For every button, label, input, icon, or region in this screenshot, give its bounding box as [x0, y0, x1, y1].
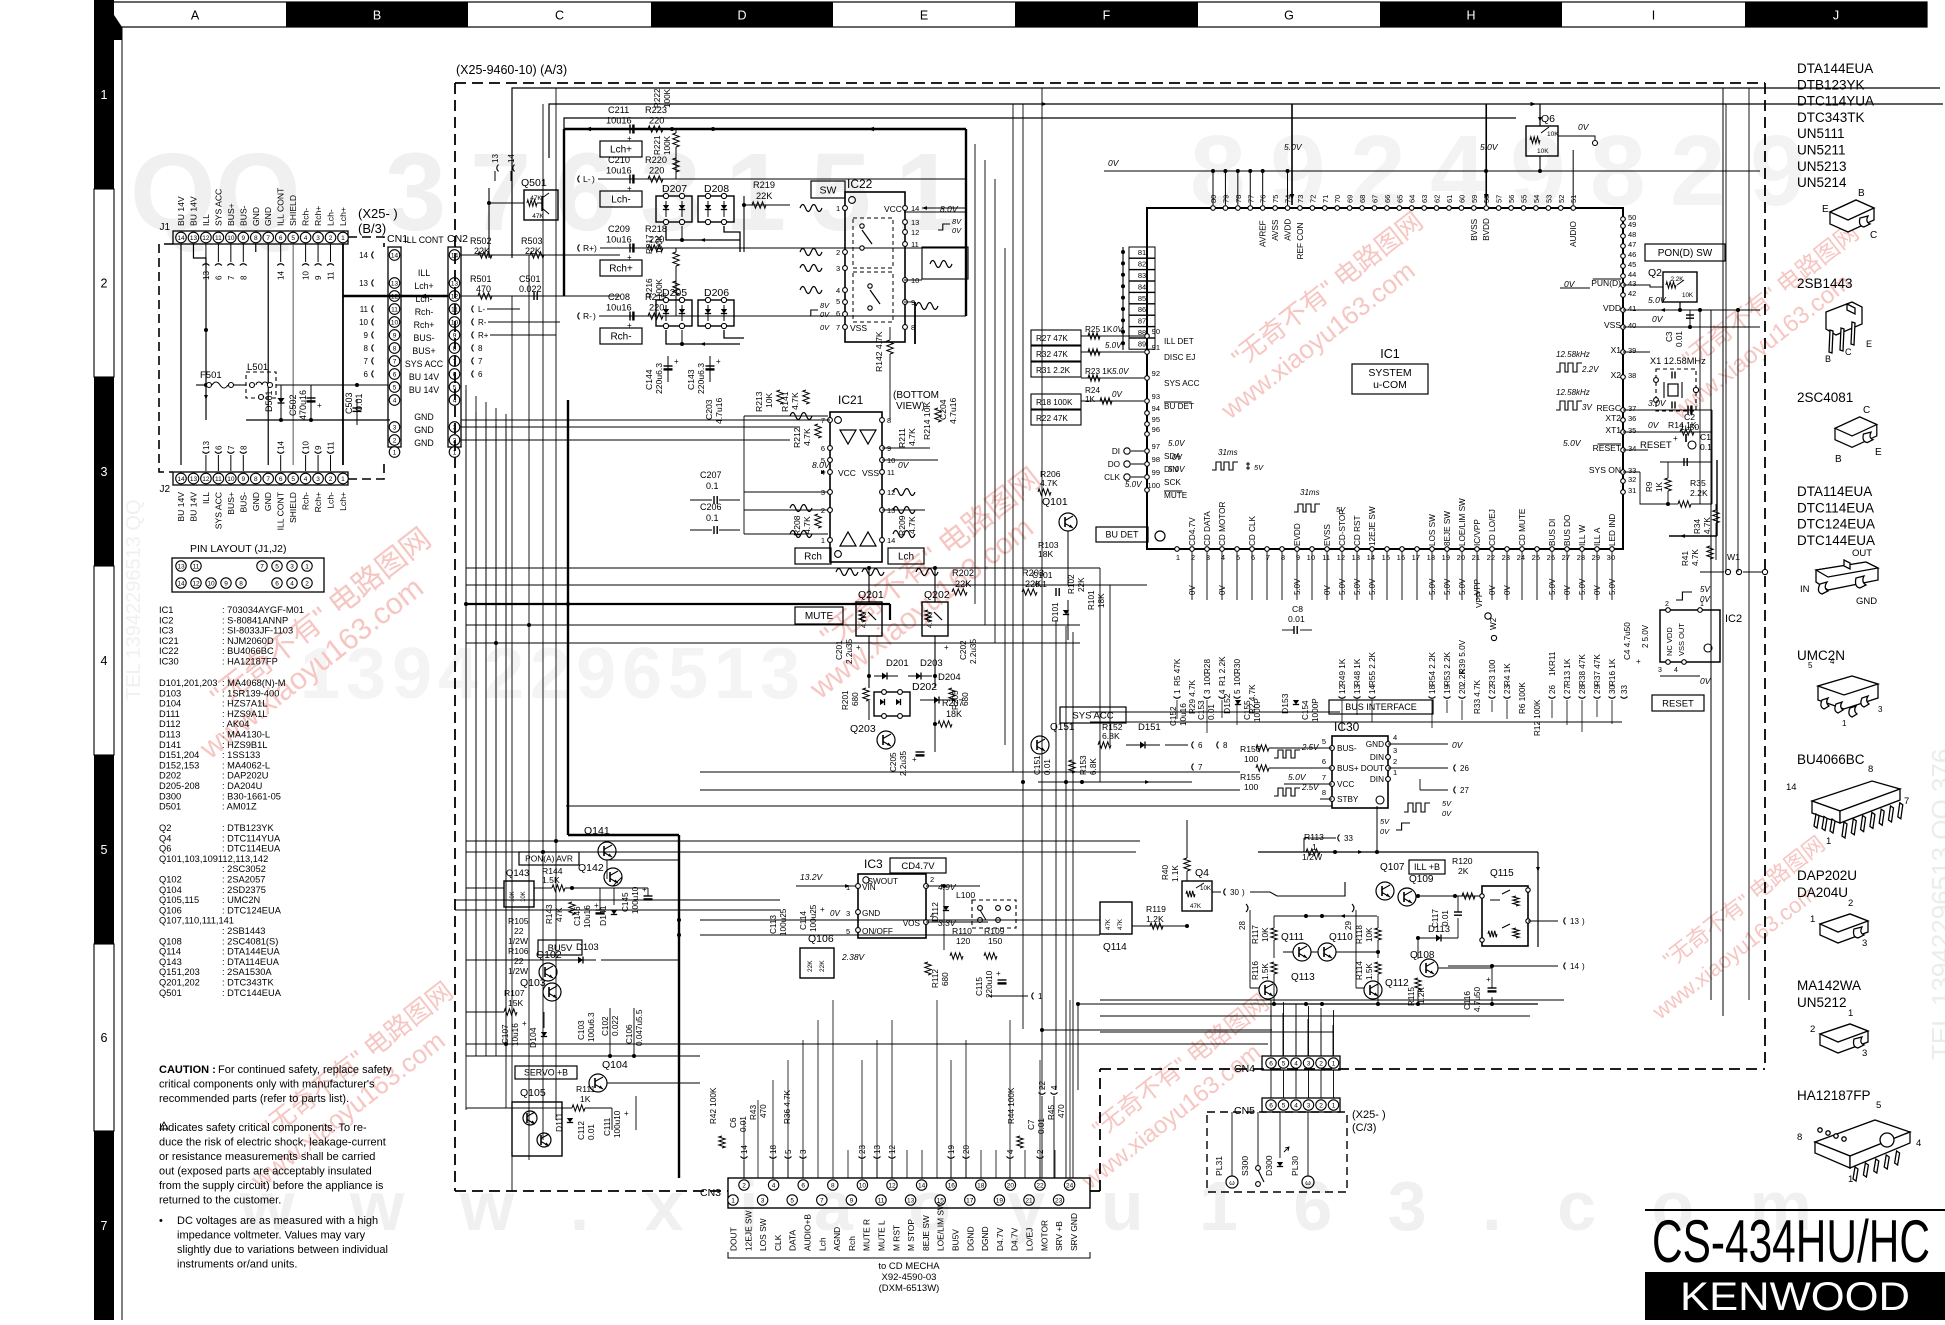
wire Q109 to Q115: [1416, 895, 1482, 897]
svg-text:4: 4: [772, 1182, 776, 1189]
bracket 30: [1224, 889, 1226, 896]
capacitor C208: [629, 312, 631, 321]
svg-text:R105: R105: [508, 916, 529, 926]
svg-text:R48 1K: R48 1K: [1353, 658, 1362, 686]
svg-text:0V: 0V: [1652, 314, 1664, 324]
svg-text:3: 3: [1307, 1060, 1311, 1067]
svg-text:Q107,110,111,141: Q107,110,111,141: [159, 916, 234, 926]
svg-text:47K: 47K: [530, 195, 542, 202]
svg-text:19: 19: [947, 1145, 956, 1154]
IC1 left pins 90-100: [1145, 334, 1150, 339]
svg-text:8.0V: 8.0V: [940, 204, 959, 214]
svg-text:8V: 8V: [952, 217, 962, 226]
bracket 1 right of ic3: [1032, 993, 1034, 1000]
svg-text:: 2SB1443: : 2SB1443: [222, 926, 265, 936]
svg-text:R217: R217: [645, 234, 654, 254]
svg-text:4: 4: [438, 634, 478, 714]
svg-text:12.58kHz: 12.58kHz: [1556, 388, 1590, 397]
svg-text:2: 2: [1393, 757, 1397, 766]
dashed boundary A/3 left: [454, 83, 456, 1191]
svg-text:D111: D111: [159, 709, 180, 719]
svg-text:5V: 5V: [1700, 585, 1710, 594]
IC1 bottom wires down: [1191, 551, 1193, 600]
svg-text:: 2SD2375: : 2SD2375: [222, 885, 266, 895]
svg-text:BU 14V: BU 14V: [409, 385, 439, 395]
svg-text:C4 4.7u50: C4 4.7u50: [1623, 622, 1632, 660]
label 5V 0V stby: [1396, 823, 1410, 830]
svg-text:1: 1: [1700, 601, 1704, 608]
net label box BUS INTERFACE: [1329, 700, 1433, 714]
svg-text:5.0V: 5.0V: [1548, 578, 1557, 595]
svg-text:GND: GND: [1366, 740, 1384, 749]
svg-text:3: 3: [836, 264, 840, 273]
svg-text:duce the risk of electric shoc: duce the risk of electric shock, leakage…: [159, 1137, 386, 1149]
svg-text:14: 14: [1368, 685, 1377, 694]
svg-text:22: 22: [1487, 553, 1495, 562]
svg-text:D152: D152: [1222, 693, 1232, 714]
svg-text:62: 62: [1433, 195, 1442, 203]
svg-text:31ms: 31ms: [1218, 448, 1238, 457]
svg-text:D4.7V: D4.7V: [1010, 1227, 1020, 1251]
svg-text:GND: GND: [414, 425, 434, 435]
svg-text:D: D: [737, 9, 746, 23]
svg-text:5: 5: [1233, 689, 1242, 694]
svg-text:5.0V: 5.0V: [1168, 439, 1185, 448]
svg-text:: MA4062-L: : MA4062-L: [222, 760, 270, 770]
wire D205 D206 bottom bus: [666, 330, 740, 344]
svg-text:11: 11: [911, 240, 919, 249]
svg-text:69: 69: [1346, 195, 1355, 203]
svg-text:5.0V: 5.0V: [1443, 578, 1452, 595]
svg-text:14: 14: [1367, 553, 1375, 562]
svg-text:DIN: DIN: [1370, 753, 1384, 762]
svg-text:4.9V: 4.9V: [938, 882, 957, 892]
svg-text:2: 2: [1665, 601, 1669, 608]
svg-text:Rch-: Rch-: [610, 332, 631, 343]
svg-text:5.0V: 5.0V: [1112, 367, 1129, 376]
svg-text:36: 36: [1628, 414, 1636, 423]
svg-text:IC21: IC21: [838, 393, 864, 407]
svg-text:8: 8: [1281, 553, 1285, 562]
svg-text:CD DATA: CD DATA: [1203, 511, 1212, 546]
wire ILL CONT vertical: [511, 255, 513, 296]
svg-text:IN: IN: [1800, 584, 1810, 595]
svg-text:Q101: Q101: [1042, 496, 1068, 508]
svg-text:8: 8: [887, 416, 891, 425]
svg-text:3: 3: [761, 1197, 765, 1204]
svg-text:BVSS: BVSS: [1470, 218, 1479, 240]
svg-text:R9: R9: [1645, 481, 1654, 492]
IC1 bottom bracket pins: [1174, 697, 1181, 699]
svg-text:: 2SA1530A: : 2SA1530A: [222, 967, 272, 977]
svg-text:6: 6: [622, 634, 662, 714]
net label box RESET bottom: [1652, 695, 1704, 711]
svg-text:220: 220: [649, 166, 664, 176]
svg-text:D113: D113: [159, 730, 181, 740]
svg-text:SYS ACC: SYS ACC: [1164, 379, 1200, 388]
svg-text:5: 5: [1236, 553, 1240, 562]
svg-text:BUS INTERFACE: BUS INTERFACE: [1345, 702, 1417, 712]
svg-text:LOE/LIM SW: LOE/LIM SW: [1458, 498, 1467, 546]
svg-text:R211: R211: [897, 428, 907, 448]
net label box Lch bottom: [888, 548, 924, 564]
svg-text:15: 15: [1382, 553, 1390, 562]
svg-text:2: 2: [305, 580, 309, 587]
svg-text:C210: C210: [608, 155, 630, 165]
svg-text:5.0V: 5.0V: [1428, 578, 1437, 595]
net label box SERVO +B: [515, 1066, 577, 1079]
svg-text:: DA204U: : DA204U: [222, 781, 262, 791]
svg-text:: DTA114EUA: : DTA114EUA: [222, 957, 280, 967]
svg-text:critical components only with: critical components only with manufactur…: [159, 1079, 375, 1091]
svg-text:2.5V: 2.5V: [1301, 743, 1319, 752]
wire J1 pin8 GND corner: [255, 244, 257, 252]
svg-text:13: 13: [190, 476, 198, 483]
svg-text:0.1: 0.1: [706, 481, 719, 491]
svg-text:16: 16: [948, 1182, 956, 1189]
svg-text:10K: 10K: [1547, 131, 1559, 138]
svg-text:Q4: Q4: [1195, 867, 1209, 879]
svg-text:R106: R106: [508, 946, 529, 956]
svg-text:3: 3: [290, 563, 294, 570]
svg-text:21: 21: [1472, 553, 1480, 562]
svg-text:8: 8: [254, 476, 258, 483]
svg-text:BU 14V: BU 14V: [409, 372, 439, 382]
svg-text:11: 11: [887, 468, 895, 477]
svg-text:2.2K: 2.2K: [1690, 488, 1708, 498]
svg-text:4: 4: [1830, 657, 1835, 666]
svg-text:2.2u35: 2.2u35: [845, 639, 854, 664]
wire top rail 3: [564, 118, 1516, 129]
svg-text:4: 4: [1006, 1149, 1015, 1154]
IC1 left numbered boxes 81-89: [1129, 247, 1155, 258]
svg-text:BU 14V: BU 14V: [188, 492, 198, 522]
svg-text:VPP: VPP: [1475, 591, 1484, 608]
svg-text:7: 7: [364, 357, 369, 366]
svg-text:+: +: [317, 401, 322, 410]
svg-text:GND: GND: [414, 412, 434, 422]
wire thick Lch+ feed: [564, 128, 966, 131]
svg-text:R+: R+: [583, 243, 594, 253]
svg-text:9: 9: [887, 444, 891, 453]
crystal X1 dashed box: [1656, 369, 1696, 411]
svg-text:22: 22: [1038, 1081, 1047, 1090]
svg-text:5: 5: [1282, 1060, 1286, 1067]
svg-text:R111: R111: [576, 1084, 595, 1094]
svg-text:CN4: CN4: [1234, 1063, 1255, 1075]
svg-text:0V: 0V: [1218, 585, 1227, 595]
svg-text:1.5K: 1.5K: [542, 875, 560, 885]
svg-text:24: 24: [1066, 1182, 1074, 1189]
svg-text:0.01: 0.01: [1043, 759, 1052, 775]
svg-text:DAP202U: DAP202U: [1797, 868, 1857, 883]
svg-text:9: 9: [364, 331, 369, 340]
svg-text:61: 61: [1445, 195, 1454, 203]
svg-text:0.01: 0.01: [1207, 704, 1216, 720]
svg-text:7: 7: [1198, 763, 1203, 772]
svg-text:D300: D300: [1264, 1155, 1274, 1176]
svg-text:R45: R45: [1047, 1105, 1056, 1120]
svg-text:1000P: 1000P: [1311, 698, 1320, 722]
svg-text:ILL W: ILL W: [1578, 525, 1587, 546]
svg-text:99: 99: [1152, 468, 1160, 477]
svg-text:4: 4: [1916, 1138, 1921, 1149]
svg-text:Lch-: Lch-: [326, 492, 336, 509]
svg-text:PON(A) AVR: PON(A) AVR: [525, 854, 573, 864]
svg-text:+: +: [996, 969, 1001, 978]
svg-text:CLK: CLK: [1104, 473, 1120, 482]
svg-text:14: 14: [887, 536, 895, 545]
net label box Lch-: [600, 191, 642, 207]
svg-text:8: 8: [239, 275, 248, 280]
svg-text:0V: 0V: [1112, 390, 1122, 399]
svg-text:100K: 100K: [655, 234, 664, 254]
svg-text:D141: D141: [159, 740, 181, 750]
svg-text:(BOTTOM: (BOTTOM: [893, 390, 939, 401]
svg-text:8: 8: [364, 344, 369, 353]
pulse 5V 0V annotation ic30: [1404, 803, 1430, 812]
net label box Rch-: [600, 328, 642, 344]
svg-text:12: 12: [1337, 553, 1345, 562]
svg-text:0.047u5.5: 0.047u5.5: [635, 1009, 644, 1046]
svg-text:D153: D153: [1280, 693, 1290, 714]
svg-text:MUTE: MUTE: [1164, 491, 1188, 500]
svg-text:13: 13: [359, 279, 368, 288]
svg-text:DGND: DGND: [965, 1226, 975, 1251]
svg-text:470: 470: [759, 1104, 768, 1118]
svg-text:220u6.3: 220u6.3: [654, 363, 664, 394]
svg-text:D104: D104: [528, 1027, 538, 1048]
net label box ILL +B: [1409, 860, 1445, 874]
svg-text:R40: R40: [1161, 865, 1170, 880]
svg-text:R35: R35: [1690, 478, 1706, 488]
svg-text:12: 12: [1338, 685, 1347, 694]
svg-text:5.0V: 5.0V: [1353, 578, 1362, 595]
svg-text:9: 9: [576, 634, 616, 714]
svg-text:MUTE L: MUTE L: [877, 1220, 887, 1251]
svg-text:LOE/LIM SW: LOE/LIM SW: [936, 1202, 946, 1251]
dashed boundary A/3 bottom-left: [455, 1190, 728, 1192]
svg-text:12EJE SW: 12EJE SW: [743, 1210, 753, 1251]
svg-text:60: 60: [1457, 195, 1466, 203]
svg-text:DATA: DATA: [788, 1229, 798, 1251]
svg-text:H: H: [1466, 9, 1475, 23]
svg-text:SRV GND: SRV GND: [1069, 1213, 1079, 1251]
svg-text:Q201: Q201: [858, 589, 884, 601]
svg-text:100u25: 100u25: [779, 908, 788, 936]
package icon SOT-23 DAP202U: [1820, 914, 1868, 943]
svg-text:R11: R11: [1548, 651, 1557, 666]
J1 underside bracket pins: [205, 244, 207, 262]
svg-text:Q114: Q114: [1103, 942, 1127, 953]
svg-text:C8: C8: [1292, 604, 1303, 614]
svg-text:IC3: IC3: [159, 626, 173, 636]
svg-text:Q107: Q107: [1380, 862, 1405, 873]
svg-text:10u16: 10u16: [606, 116, 632, 126]
CN3 underline bracket: [728, 1252, 1090, 1258]
svg-text:1: 1: [1332, 1102, 1336, 1109]
svg-text:2: 2: [1319, 1102, 1323, 1109]
svg-text:C501: C501: [519, 274, 541, 284]
svg-text:3.0V: 3.0V: [1648, 398, 1667, 408]
J2 topside bracket pins: [205, 455, 207, 471]
svg-text:D501: D501: [264, 390, 274, 412]
svg-text:29: 29: [1592, 553, 1600, 562]
svg-text:13: 13: [177, 563, 185, 570]
net label box MUTE: [795, 607, 843, 624]
svg-text:D202: D202: [912, 681, 937, 693]
svg-text:Q6: Q6: [159, 844, 171, 854]
svg-text:SRV +B: SRV +B: [1054, 1221, 1064, 1251]
svg-text:CAUTION :: CAUTION :: [159, 1064, 216, 1076]
wire ic22 links right: [904, 279, 922, 281]
wire long vertical shield: [292, 244, 294, 465]
svg-text:23: 23: [1502, 553, 1510, 562]
wire X1 X2 pins: [1623, 352, 1656, 380]
svg-text:R+: R+: [478, 331, 489, 340]
wire R113 rail: [1258, 851, 1538, 853]
svg-text:C155: C155: [1243, 700, 1252, 720]
svg-text:5V: 5V: [1442, 799, 1452, 808]
svg-text:CN3: CN3: [700, 1187, 721, 1199]
svg-text:SYS ACC: SYS ACC: [213, 189, 223, 226]
svg-text:10K: 10K: [764, 392, 774, 408]
svg-text:28: 28: [1577, 553, 1585, 562]
svg-text:R32 47K: R32 47K: [1036, 350, 1068, 359]
svg-text:REF CON: REF CON: [1296, 222, 1305, 259]
svg-text:97: 97: [1152, 442, 1160, 451]
resistor R220: [648, 176, 663, 182]
svg-text:C204: C204: [938, 399, 948, 420]
svg-text:ILL +B: ILL +B: [1414, 862, 1440, 872]
svg-text:10u16: 10u16: [606, 166, 632, 176]
svg-text:R55 2.2K: R55 2.2K: [1368, 651, 1377, 686]
svg-text:13: 13: [1352, 553, 1360, 562]
wire gnd bus under fuse area: [246, 419, 390, 421]
svg-text:13: 13: [907, 1197, 915, 1204]
svg-text:52: 52: [1557, 195, 1566, 203]
Q501 pin bracket 13 14: [497, 165, 499, 172]
svg-text:: DTC124EUA: : DTC124EUA: [222, 905, 282, 915]
svg-text:C502: C502: [288, 394, 298, 416]
svg-text:18K: 18K: [1097, 593, 1106, 608]
svg-text:R5 47K: R5 47K: [1173, 658, 1182, 686]
net label box PON(A) AVR: [519, 852, 579, 865]
svg-text:: SI-8033JF-1103: : SI-8033JF-1103: [222, 626, 293, 636]
svg-text:85: 85: [1138, 294, 1146, 303]
svg-text:3: 3: [1658, 667, 1662, 674]
svg-text:(C/3): (C/3): [1352, 1122, 1376, 1134]
svg-text:0V: 0V: [830, 909, 840, 918]
svg-text:2: 2: [393, 437, 397, 444]
svg-text:R49 1K: R49 1K: [1338, 658, 1347, 686]
svg-text:2 5.0V: 2 5.0V: [1641, 624, 1650, 648]
svg-text:R-: R-: [478, 318, 487, 327]
svg-text:or resistance measurements sha: or resistance measurements shall be carr…: [159, 1151, 375, 1163]
svg-text:0V: 0V: [1172, 453, 1182, 462]
svg-text:Lch+: Lch+: [414, 281, 433, 291]
svg-text:Q105,115: Q105,115: [159, 895, 199, 905]
svg-text:IC22: IC22: [159, 646, 179, 656]
svg-text:17: 17: [966, 1197, 974, 1204]
svg-text:8: 8: [1868, 764, 1873, 775]
svg-text:20: 20: [1458, 685, 1467, 694]
svg-text:DTA144EUA: DTA144EUA: [1797, 61, 1873, 76]
bracket 14: [1448, 965, 1558, 967]
svg-text:VSS: VSS: [1604, 320, 1621, 330]
svg-text:Q102: Q102: [159, 875, 182, 885]
svg-text:Q106: Q106: [159, 905, 182, 915]
svg-text:11: 11: [360, 305, 369, 314]
svg-text:Q110: Q110: [1329, 932, 1353, 943]
svg-text:14: 14: [177, 580, 185, 587]
svg-text:SHIELD: SHIELD: [288, 195, 298, 226]
svg-text:C209: C209: [608, 224, 630, 234]
svg-text:+: +: [627, 134, 632, 143]
svg-text:17: 17: [1412, 553, 1420, 562]
svg-text:2.2K: 2.2K: [1671, 276, 1685, 283]
svg-text:M STOP: M STOP: [906, 1219, 916, 1251]
svg-text:4.7K: 4.7K: [790, 392, 800, 410]
svg-text:12: 12: [888, 1182, 896, 1189]
svg-text:100: 100: [1244, 782, 1259, 792]
svg-text:EVSS: EVSS: [1323, 524, 1332, 546]
svg-text:8: 8: [254, 235, 258, 242]
svg-text:6: 6: [214, 445, 223, 450]
svg-text:10K: 10K: [1261, 927, 1270, 942]
svg-text:Q501: Q501: [159, 988, 182, 998]
svg-text:2SC4081: 2SC4081: [1797, 390, 1853, 405]
svg-text:18: 18: [769, 1145, 778, 1154]
svg-text:0V: 0V: [1648, 420, 1660, 430]
svg-text:2: 2: [742, 1182, 746, 1189]
wire mid horizontals: [461, 419, 830, 421]
pon avr wires: [466, 887, 504, 889]
svg-text:R101: R101: [1087, 590, 1096, 610]
svg-text:13: 13: [1353, 685, 1362, 694]
svg-text:0.01: 0.01: [587, 1124, 596, 1140]
svg-text:BUS DO: BUS DO: [1563, 515, 1572, 546]
svg-text:31ms: 31ms: [1300, 488, 1320, 497]
svg-text:94: 94: [1152, 404, 1160, 413]
svg-text:D104: D104: [159, 699, 181, 709]
svg-text:7: 7: [821, 416, 825, 425]
svg-text:J1: J1: [159, 222, 170, 233]
svg-text:13: 13: [190, 235, 198, 242]
svg-text:C: C: [1863, 405, 1870, 416]
svg-text:UN5111: UN5111: [1797, 126, 1845, 141]
package icon SOT-363 UMC2N: [1818, 676, 1878, 717]
svg-text:9: 9: [241, 476, 245, 483]
svg-text:DISC EJ: DISC EJ: [1164, 353, 1195, 362]
svg-text:R39 5.0V: R39 5.0V: [1458, 639, 1467, 674]
svg-text:0V: 0V: [1188, 585, 1197, 595]
svg-text:10K: 10K: [1200, 885, 1212, 892]
svg-text:BU DET: BU DET: [1164, 402, 1194, 411]
bracket 28 vertical: [1246, 904, 1248, 912]
svg-text:IC3: IC3: [864, 857, 883, 871]
svg-text:47K: 47K: [1105, 918, 1112, 930]
svg-text:For continued safety, replace: For continued safety, replace safety: [218, 1064, 392, 1076]
svg-text:REGC: REGC: [1596, 403, 1621, 413]
net label box PON(D) SW: [1645, 244, 1725, 261]
svg-text:R22 47K: R22 47K: [1036, 414, 1068, 423]
svg-text:2.38V: 2.38V: [841, 952, 866, 962]
svg-text:+: +: [627, 321, 632, 330]
svg-text:45: 45: [1628, 260, 1636, 269]
svg-text:5.0V: 5.0V: [1578, 578, 1587, 595]
svg-text:PUN(D): PUN(D): [1591, 278, 1621, 288]
